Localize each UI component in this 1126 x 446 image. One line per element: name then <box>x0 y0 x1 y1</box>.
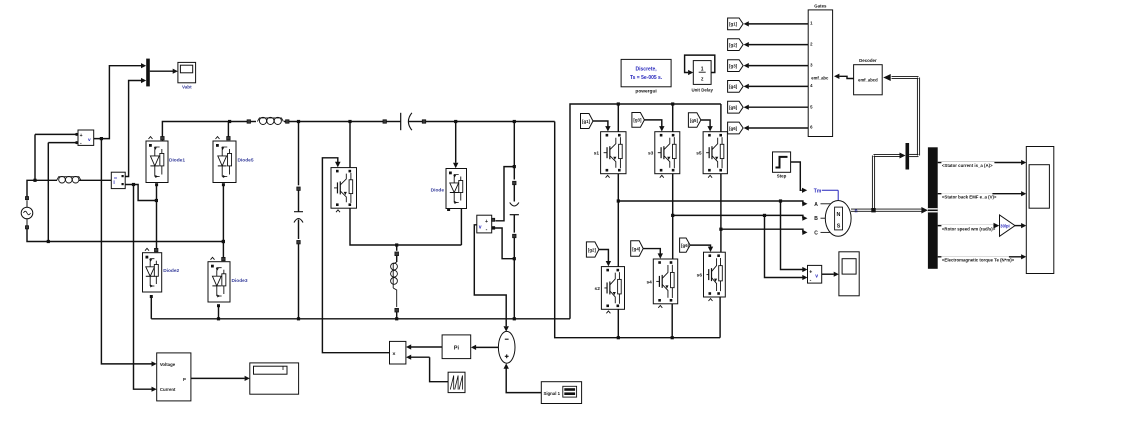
svg-text:Unit Delay: Unit Delay <box>691 87 713 92</box>
diode Diode3 <box>208 257 248 302</box>
wire voltage feed down to power block <box>101 139 156 367</box>
capacitor C1 <box>294 122 303 321</box>
block Unit Delay <box>685 55 715 92</box>
wire gate s3 <box>644 120 664 132</box>
wire Lac to current measurement <box>79 179 111 181</box>
current measurement block I1 <box>111 172 125 188</box>
wire phase A tap to V3m <box>781 201 808 272</box>
wire bridge leg A (Diode1-Diode2) <box>155 183 158 248</box>
svg-text:<Stator back EMF e_a (V)>: <Stator back EMF e_a (V)> <box>942 194 997 199</box>
wire Q1 emitter to chopper output line <box>350 208 461 245</box>
from tag [g3] <box>632 113 645 128</box>
svg-text:s1: s1 <box>594 151 600 157</box>
svg-text:v: v <box>815 274 818 280</box>
op product block <box>390 341 406 364</box>
svg-text:[g2]: [g2] <box>588 247 597 252</box>
wire gates port 2 to tag [g2] <box>744 42 809 47</box>
from tag [g2] <box>586 242 599 257</box>
wire I1 to bridge midpoint <box>125 183 158 202</box>
diode Diode2 <box>143 248 180 292</box>
wire current feed down to power block <box>134 185 157 392</box>
svg-text:[g1]: [g1] <box>582 119 591 124</box>
svg-text:emf_abcd: emf_abcd <box>858 77 878 82</box>
wire V2m output to sum <box>474 225 509 332</box>
svg-text:Ts = 5e-005 s.: Ts = 5e-005 s. <box>630 75 663 81</box>
wire s5 collector <box>720 104 722 132</box>
wire D6 bottom to chopper output <box>447 208 461 245</box>
transistor s5 <box>696 132 727 178</box>
wire V2m minus tap to C2 bottom <box>492 226 516 260</box>
capacitor C2 <box>510 122 519 321</box>
svg-text:[g3]: [g3] <box>729 63 738 68</box>
wire bus tap up to selector <box>872 153 905 209</box>
block Decoder <box>854 58 883 95</box>
wire bridge leg B (Diode5-Diode3) <box>222 183 225 257</box>
wire Diode5 top drop <box>227 122 229 137</box>
svg-text:emf_abc: emf_abc <box>811 75 829 80</box>
wire gates port 6 to tag [g6] <box>744 125 809 130</box>
transistor s3 <box>648 132 680 178</box>
wire Pi output to product <box>406 344 442 349</box>
svg-text:s4: s4 <box>646 279 652 285</box>
wire rectifier negative bus up to inverter top bus <box>570 104 721 319</box>
goto tag [g3] <box>728 60 744 72</box>
inductor Lac <box>57 176 81 183</box>
wire gates port 5 to tag [g5] <box>744 105 809 110</box>
from tag [g6] <box>680 238 691 252</box>
svg-text:[g4]: [g4] <box>632 246 641 251</box>
svg-text:<Rotor speed wm (rad/s)>: <Rotor speed wm (rad/s)> <box>942 226 996 231</box>
ac voltage source V1 <box>21 197 33 229</box>
svg-text:<Electromagnetic torque Te (N*: <Electromagnetic torque Te (N*m)> <box>942 258 1015 263</box>
inductor Ldc on top bus <box>257 117 283 124</box>
from tag [g1] <box>581 114 594 129</box>
wire stator back emf signal <box>938 191 1027 199</box>
motor asynchronous machine M1 <box>825 201 857 237</box>
svg-text:s3: s3 <box>648 151 654 157</box>
svg-text:[g1]: [g1] <box>729 22 738 27</box>
svg-text:-: - <box>810 278 812 284</box>
wire gates port 4 to tag [g4] <box>744 84 809 89</box>
svg-text:Gates: Gates <box>814 3 827 8</box>
voltage measurement block V3m <box>808 265 822 283</box>
svg-text:30/pi: 30/pi <box>1000 224 1009 229</box>
wire phase B tap to V3m <box>765 215 808 280</box>
svg-text:N: N <box>837 212 841 218</box>
source signal builder Signal 1 <box>541 382 581 404</box>
wire V1m inputs <box>33 133 78 243</box>
wire Q1 collector to top bus <box>349 122 351 168</box>
node bus tap junction <box>871 208 875 212</box>
wire Signal 1 to Sum1 <box>504 363 542 392</box>
op sum block Sum1 <box>498 331 515 363</box>
wire stator current signal <box>938 160 1027 168</box>
capacitor Cs series on top bus <box>386 113 422 130</box>
wire electromagnetic torque signal <box>938 254 1027 262</box>
goto tag [g1] <box>728 18 744 30</box>
from tag [g5] <box>688 113 701 127</box>
transistor s6 <box>697 252 726 301</box>
wire machine m output bus <box>851 207 928 214</box>
wire Diode2 bottom to negative bus <box>150 295 153 319</box>
svg-text:powergui: powergui <box>635 89 656 95</box>
wire s1 collector <box>617 104 619 132</box>
svg-text:Current: Current <box>160 387 176 392</box>
wire gate s4 <box>643 249 663 259</box>
svg-text:s2: s2 <box>595 286 601 292</box>
svg-text:Signal 1: Signal 1 <box>544 391 561 396</box>
scope Vab <box>178 62 196 89</box>
svg-text:[g5]: [g5] <box>729 105 738 110</box>
scope Scope2 <box>839 252 859 296</box>
wire gate s6 <box>690 245 713 252</box>
gain 30/pi <box>1000 215 1016 236</box>
svg-text:[g3]: [g3] <box>633 118 642 123</box>
svg-text:P: P <box>183 377 186 382</box>
voltage measurement block V1m <box>78 130 94 147</box>
wire mux to scope Vab <box>150 69 178 74</box>
diode D6 <box>431 169 467 209</box>
source sawtooth generator <box>448 372 465 392</box>
wire step to Tm input <box>791 162 839 201</box>
transistor s1 <box>594 132 626 178</box>
transistor s2 <box>595 267 625 314</box>
wire dc bus down to inverter bottom <box>555 122 720 338</box>
svg-text:C: C <box>814 230 818 236</box>
svg-text:[g6]: [g6] <box>681 243 690 248</box>
power calculation block P1 <box>157 353 191 401</box>
wire phase leg C vertical <box>719 174 722 253</box>
goto tag [g5] <box>728 101 744 113</box>
svg-text:+: + <box>809 269 812 275</box>
wire I1 measurement output up to mux <box>125 78 146 177</box>
svg-text:+: + <box>80 133 83 139</box>
wire s6 emitter to bottom bus <box>719 297 721 338</box>
wire P1 output to display <box>191 376 250 381</box>
transistor Q1 chopper IGBT <box>331 168 357 213</box>
svg-text:Discrete,: Discrete, <box>636 67 658 73</box>
svg-text:Vabt: Vabt <box>182 85 192 90</box>
svg-text:<Stator current is_a (A)>: <Stator current is_a (A)> <box>942 163 993 168</box>
svg-text:s6: s6 <box>697 273 703 279</box>
bus selector bar <box>928 147 938 268</box>
svg-text:Step: Step <box>777 174 787 179</box>
wire phase leg A vertical <box>617 174 620 267</box>
wire Q1 gate from product <box>322 158 389 353</box>
display Display1 <box>250 363 299 394</box>
wire phase A to machine <box>618 199 807 206</box>
svg-text:[g6]: [g6] <box>729 126 738 131</box>
wire V3m to scope2 <box>822 272 839 277</box>
wire phase leg B vertical <box>671 174 674 259</box>
from tag [g4] <box>631 241 644 256</box>
demux block Gates <box>808 3 832 136</box>
scope Scope4 <box>1026 147 1054 274</box>
wire rotor speed signal <box>938 223 1000 232</box>
node inverter top bus junctions <box>617 102 675 105</box>
svg-text:×: × <box>392 351 395 357</box>
wire sawtooth to product <box>406 355 448 382</box>
wire phase B to machine <box>673 214 808 221</box>
svg-text:Pi: Pi <box>454 345 460 351</box>
svg-text:-: - <box>486 227 488 233</box>
inductor L2 load <box>391 245 399 320</box>
svg-text:S: S <box>837 224 841 230</box>
svg-text:Diode5: Diode5 <box>238 158 254 164</box>
wire gain to scope <box>1015 223 1026 228</box>
wire decoder output to gates <box>834 74 854 79</box>
wire selector to decoder <box>883 74 919 157</box>
wire gate s2 <box>599 250 611 267</box>
wire s3 collector <box>672 104 674 132</box>
goto tag [g2] <box>728 39 744 51</box>
goto tag [g6] <box>728 122 744 134</box>
wire phase C to machine <box>721 229 808 235</box>
svg-text:[g4]: [g4] <box>729 84 738 89</box>
svg-text:Diode: Diode <box>431 188 445 194</box>
svg-text:+: + <box>485 219 488 225</box>
wire V1m output to mux <box>94 63 147 140</box>
goto tag [g4] <box>728 81 744 93</box>
wire s2 emitter to bottom bus <box>617 309 619 337</box>
svg-text:Diode1: Diode1 <box>169 158 185 164</box>
svg-text:[g5]: [g5] <box>690 118 699 123</box>
svg-text:Tm: Tm <box>814 188 822 194</box>
wire Diode3 bottom to negative bus <box>217 304 220 320</box>
wire negative dc bus <box>151 318 570 320</box>
svg-text:Decoder: Decoder <box>859 58 877 63</box>
svg-text:s5: s5 <box>696 151 702 157</box>
wire D6 top to bus <box>453 122 458 169</box>
wire Sum1 output to Pi <box>471 345 499 350</box>
wire gate s5 <box>701 120 713 132</box>
node chopper output junction <box>395 243 398 246</box>
node phase port labels A B C <box>814 202 831 237</box>
wire gate s1 <box>593 121 611 132</box>
mux Mux1 <box>146 59 150 87</box>
svg-text:v: v <box>479 224 482 230</box>
wire top dc bus <box>162 120 554 137</box>
svg-text:Diode3: Diode3 <box>232 278 248 284</box>
wire source bottom line <box>27 229 225 243</box>
svg-text:[g2]: [g2] <box>729 42 738 47</box>
svg-text:B: B <box>814 216 818 222</box>
controller block Pi <box>442 335 471 359</box>
svg-text:Voltage: Voltage <box>160 362 176 367</box>
mux selector bar Sel1 <box>906 143 910 170</box>
svg-text:v: v <box>88 138 91 143</box>
node inverter bottom bus junctions <box>617 336 674 339</box>
svg-text:Diode2: Diode2 <box>163 268 179 274</box>
voltage measurement block V2m <box>477 215 492 233</box>
block powergui <box>621 59 671 94</box>
wire s4 emitter to bottom bus <box>671 304 673 338</box>
diode Diode1 <box>146 137 185 183</box>
wire gates port 3 to tag [g3] <box>744 63 809 68</box>
wire source top to AC line <box>27 180 57 196</box>
diode Diode5 <box>213 137 254 183</box>
wire gates port 1 to tag [g1] <box>744 21 809 26</box>
wire V2m plus tap from C2 top <box>492 165 516 221</box>
svg-text:1: 1 <box>701 66 704 72</box>
source step block <box>773 152 791 179</box>
transistor s4 <box>646 259 677 308</box>
svg-text:A: A <box>814 202 818 208</box>
